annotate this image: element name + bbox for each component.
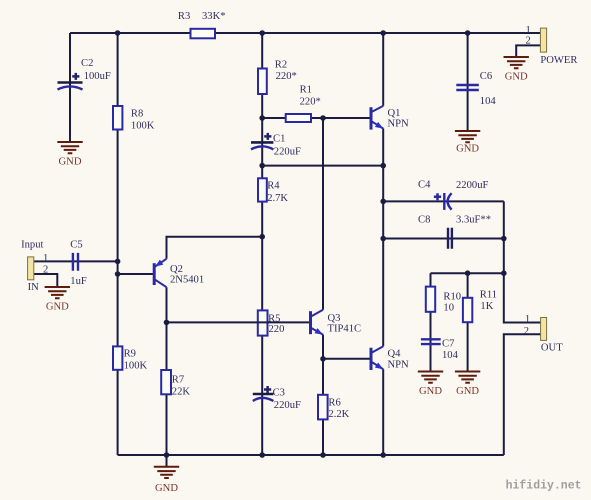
svg-text:R5: R5 — [268, 313, 280, 324]
svg-text:33K*: 33K* — [202, 11, 226, 22]
svg-text:104: 104 — [442, 350, 459, 361]
capacitor C8 plates — [448, 228, 452, 249]
transistor Q2 — [154, 259, 166, 287]
junction Q1 base node — [320, 115, 326, 121]
svg-text:IN: IN — [28, 282, 40, 293]
junction R2/R1/C1 node — [259, 115, 265, 121]
svg-text:C4: C4 — [418, 180, 431, 191]
wire C4 right to OUT pin1 — [504, 201, 541, 322]
svg-text:Q3: Q3 — [328, 313, 341, 324]
wire IN pin1 through C5 — [34, 260, 118, 262]
svg-text:220: 220 — [269, 324, 285, 335]
resistor R4 — [258, 178, 267, 201]
svg-text:1K: 1K — [480, 301, 493, 312]
junction rail Q4 emitter — [380, 452, 386, 458]
svg-text:GND: GND — [155, 483, 178, 494]
svg-text:2200uF: 2200uF — [456, 180, 488, 191]
wire GND bottom rail — [118, 454, 504, 456]
svg-text:R10: R10 — [443, 291, 461, 302]
wire Q1 collector to rail — [382, 33, 384, 106]
svg-text:C2: C2 — [81, 58, 93, 69]
svg-text:1: 1 — [43, 253, 48, 264]
wire R8/R9 column — [117, 33, 119, 455]
wire R10/R11 top row — [431, 272, 504, 274]
svg-text:2.7K: 2.7K — [267, 193, 288, 204]
capacitor C2 plus — [72, 73, 79, 80]
svg-text:GND: GND — [456, 143, 479, 154]
transistor Q4 — [371, 346, 383, 370]
ground symbol under C6 — [455, 131, 480, 142]
resistor R8 — [113, 106, 122, 130]
svg-text:R8: R8 — [131, 109, 143, 120]
capacitor C4 plus — [434, 193, 441, 200]
wire R2/C1/R4/R5/C3 column — [261, 33, 263, 455]
junction OUT feed — [501, 270, 507, 276]
svg-text:220*: 220* — [300, 96, 321, 107]
svg-text:220*: 220* — [276, 71, 297, 82]
capacitor C3 plate and arc — [253, 393, 274, 396]
junction top rail R8 — [115, 30, 121, 36]
svg-text:C8: C8 — [418, 214, 430, 225]
capacitor C2 plate and arc — [58, 81, 83, 84]
resistor R1 — [286, 114, 311, 122]
junction top rail C6 — [465, 30, 471, 36]
connector POWER — [540, 28, 546, 52]
capacitor C1 plus — [264, 133, 271, 140]
capacitor C7 plates — [421, 339, 441, 344]
resistor R11 — [463, 298, 472, 322]
capacitor C6 plates — [456, 85, 479, 90]
svg-text:Input: Input — [21, 240, 43, 251]
wire POWER pin2 to GND — [516, 45, 540, 56]
wire R1 to Q1 base row — [262, 117, 371, 119]
svg-text:220uF: 220uF — [274, 146, 301, 157]
wire Q2 base row — [118, 273, 153, 275]
svg-text:10: 10 — [443, 303, 454, 314]
svg-text:R1: R1 — [300, 85, 312, 96]
wire V+ top rail — [70, 32, 540, 34]
wire Q2 collector / R7 column — [166, 287, 168, 455]
svg-text:Q1: Q1 — [388, 108, 401, 119]
junction rail R7 — [164, 452, 170, 458]
junction output node C8 — [380, 236, 386, 242]
svg-text:GND: GND — [59, 157, 82, 168]
svg-text:3.3uF**: 3.3uF** — [456, 214, 491, 225]
wire Q2 emitter link to R4/R5 node — [167, 237, 263, 259]
svg-text:POWER: POWER — [540, 55, 578, 66]
junction C5 to divider — [115, 259, 121, 265]
capacitor C3 plus — [264, 386, 271, 393]
svg-text:Q2: Q2 — [170, 264, 183, 275]
svg-text:Q4: Q4 — [388, 348, 402, 359]
transistor Q3 — [311, 310, 324, 335]
junction Q2 base node — [115, 271, 121, 277]
junction C1 bottom — [259, 163, 265, 169]
svg-text:R2: R2 — [275, 59, 287, 70]
svg-text:100K: 100K — [124, 361, 148, 372]
resistor R6 — [318, 395, 328, 420]
junction rail C3 — [259, 452, 265, 458]
ground symbol under POWER — [504, 57, 529, 68]
wire C4 row — [383, 200, 504, 202]
wire main GND stub — [166, 455, 168, 466]
resistor R5 — [258, 310, 268, 335]
resistor R7 — [161, 370, 171, 394]
svg-text:R7: R7 — [172, 375, 184, 386]
wire Q3 emitter / R6 column — [322, 335, 324, 455]
svg-text:C6: C6 — [480, 71, 492, 82]
capacitor C4 plate and arc — [443, 193, 445, 210]
ground symbol under C7 — [418, 372, 443, 383]
junction C8 right — [501, 236, 507, 242]
svg-text:100uF: 100uF — [84, 71, 111, 82]
ground symbol under R11 — [455, 372, 480, 383]
junction Q2 collector/Q3 base — [164, 320, 170, 326]
resistor R9 — [113, 346, 122, 369]
svg-text:R4: R4 — [267, 181, 280, 192]
svg-text:C5: C5 — [70, 240, 82, 251]
junction Q3 emitter/Q4 base/R6 — [320, 356, 326, 362]
junction top rail R2 — [259, 30, 265, 36]
wire OUT pin2 to rail — [504, 334, 541, 455]
wire Q3 emitter to Q4 base row — [323, 358, 371, 360]
wire C2 branch column — [69, 33, 71, 142]
junction R4/R5/Q2 emitter — [259, 234, 265, 240]
ground symbol under IN — [45, 287, 70, 298]
wire Q2 collector to Q3 base row (over R5) — [167, 321, 311, 323]
ground symbol under C2 — [57, 142, 82, 153]
svg-text:220uF: 220uF — [274, 400, 301, 411]
svg-text:GND: GND — [456, 386, 479, 397]
svg-text:100K: 100K — [131, 120, 155, 131]
svg-text:GND: GND — [46, 302, 69, 313]
capacitor C1 plate and arc — [251, 141, 273, 144]
svg-text:1: 1 — [526, 25, 531, 36]
capacitor C5 plates — [73, 253, 78, 271]
wire C6 column — [467, 33, 469, 130]
svg-text:C3: C3 — [273, 387, 285, 398]
svg-text:R6: R6 — [328, 398, 340, 409]
wire R11 column — [467, 273, 469, 371]
wire node to Q3 collector column — [322, 118, 324, 310]
resistor R3 — [191, 29, 216, 39]
wire output node column — [382, 129, 384, 347]
wire C1 bottom to output node row — [262, 165, 383, 167]
junction output node C1 — [380, 163, 386, 169]
svg-text:R11: R11 — [480, 290, 497, 301]
svg-text:TIP41C: TIP41C — [328, 324, 362, 335]
svg-text:22K: 22K — [172, 386, 191, 397]
junction R11 top — [465, 270, 471, 276]
resistor R2 — [258, 69, 267, 95]
junction top rail Q1 collector — [380, 30, 386, 36]
wire IN pin2 to GND — [34, 274, 58, 286]
svg-text:104: 104 — [480, 96, 497, 107]
svg-text:2.2K: 2.2K — [328, 409, 349, 420]
svg-text:C1: C1 — [273, 134, 285, 145]
junction rail R6 — [320, 452, 326, 458]
wire C8 row — [383, 238, 504, 240]
svg-text:R3: R3 — [178, 11, 190, 22]
svg-text:NPN: NPN — [388, 360, 410, 371]
svg-text:GND: GND — [505, 72, 528, 83]
transistor Q1 — [371, 106, 383, 130]
svg-text:R9: R9 — [124, 349, 136, 360]
svg-text:2N5401: 2N5401 — [170, 275, 204, 286]
svg-text:1uF: 1uF — [70, 276, 87, 287]
resistor R10 — [426, 287, 435, 312]
svg-text:hifidiy.net: hifidiy.net — [506, 480, 582, 493]
svg-text:2: 2 — [524, 326, 529, 337]
svg-text:1: 1 — [525, 314, 530, 325]
connector OUT — [541, 318, 547, 341]
svg-text:OUT: OUT — [541, 342, 563, 353]
svg-text:C7: C7 — [442, 339, 454, 350]
connector IN — [28, 257, 34, 280]
junction output node C4 — [380, 199, 386, 205]
svg-text:NPN: NPN — [388, 119, 410, 130]
svg-text:2: 2 — [526, 36, 531, 47]
ground symbol main rail — [154, 467, 179, 478]
wire R10/C7 column — [430, 273, 432, 371]
wire Q4 emitter to rail — [382, 369, 384, 455]
svg-text:2: 2 — [43, 265, 48, 276]
svg-text:GND: GND — [419, 386, 442, 397]
